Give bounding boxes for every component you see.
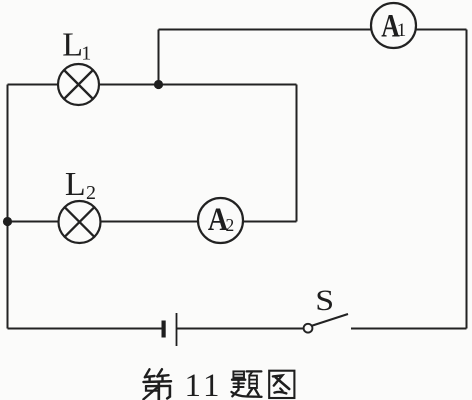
wire left vertical (7, 85, 9, 329)
ammeter A1 (371, 3, 416, 48)
svg-text:1: 1 (397, 20, 407, 41)
caption number 11 (185, 368, 220, 400)
wire bottom left segment (8, 328, 162, 330)
wire top horizontal (159, 29, 467, 31)
caption char 题 (232, 371, 262, 396)
svg-text:L: L (62, 27, 83, 64)
caption char 图 (269, 371, 294, 398)
wire switch to right corner segment (351, 328, 467, 330)
ammeter A2 (198, 198, 243, 243)
svg-text:2: 2 (86, 182, 96, 204)
svg-text:1: 1 (203, 368, 220, 400)
svg-text:S: S (315, 284, 334, 316)
node junction dot top (154, 80, 163, 89)
lamp L1 (58, 64, 99, 105)
wire right vertical (466, 30, 468, 329)
label L1 (62, 27, 91, 65)
label L2 (65, 166, 96, 204)
svg-text:1: 1 (185, 368, 202, 400)
wire battery to switch segment (177, 328, 304, 330)
svg-text:1: 1 (81, 42, 91, 64)
caption char 第 (143, 369, 171, 399)
wire L1 branch horizontal (8, 84, 297, 86)
battery cell negative plate (162, 321, 166, 338)
lamp L2 (59, 201, 101, 243)
wire inner loop right vertical (296, 85, 298, 222)
svg-text:L: L (65, 166, 86, 203)
switch S (304, 314, 348, 333)
label S (315, 284, 334, 316)
node junction dot left (3, 217, 12, 226)
svg-text:2: 2 (226, 215, 235, 235)
wire L2 branch horizontal (8, 221, 297, 223)
wire junction vertical to top (158, 30, 160, 85)
battery cell positive plate (176, 313, 178, 346)
